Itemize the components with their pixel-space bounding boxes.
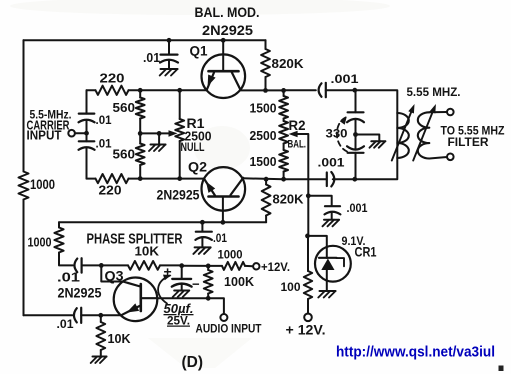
transistor Q2 xyxy=(202,167,246,211)
svg-text:BAL. MOD.: BAL. MOD. xyxy=(195,4,260,20)
wire secondary bottom lead xyxy=(429,157,447,159)
junction dot 330 mid xyxy=(353,132,358,137)
wire phase splitter rail xyxy=(59,221,266,223)
ground 10K xyxy=(93,356,107,358)
capacitor .01 top bypass xyxy=(168,40,170,54)
ground 330 chassis xyxy=(371,140,385,142)
svg-text:1500: 1500 xyxy=(250,154,277,169)
svg-text:.01: .01 xyxy=(143,50,160,65)
resistor 100K xyxy=(207,266,209,270)
svg-text:2N2925: 2N2925 xyxy=(157,188,200,203)
capacitor 330 upper xyxy=(355,90,357,112)
diode CR1 zener xyxy=(315,246,351,282)
wire 560 mid to ground stub xyxy=(140,132,159,134)
capacitor 330 lower xyxy=(355,135,357,150)
terminal output top xyxy=(447,109,454,116)
svg-text:10K: 10K xyxy=(108,331,132,346)
svg-text:100: 100 xyxy=(281,280,301,294)
wire row2 to coupling cap xyxy=(284,89,316,91)
resistor 220 top xyxy=(96,86,129,95)
resistor 1000 to +12V xyxy=(208,265,222,267)
resistor 560 lower xyxy=(139,133,141,143)
wire tank top right xyxy=(355,90,398,113)
svg-text:1000: 1000 xyxy=(30,177,55,192)
wire row4 220 to Q2 xyxy=(129,178,205,180)
resistor 220 bottom xyxy=(96,174,129,183)
svg-text:+ 12V.: + 12V. xyxy=(286,323,326,338)
svg-text:2500: 2500 xyxy=(250,128,277,143)
ground top bypass xyxy=(161,68,178,70)
svg-text:1000: 1000 xyxy=(28,235,52,250)
junction dot row4-chain xyxy=(281,177,286,182)
transistor Q1 xyxy=(202,54,246,98)
wire top supply rail xyxy=(24,39,266,41)
junction dot row4-820K xyxy=(264,177,269,182)
junction dot row4-R1 xyxy=(177,176,182,181)
wire left frame vertical xyxy=(23,40,25,171)
svg-text:+12V.: +12V. xyxy=(261,260,290,274)
resistor 10K horizontal xyxy=(101,264,128,266)
svg-text:R2: R2 xyxy=(289,117,306,133)
transistor Q3 xyxy=(114,278,158,322)
scan smudge middle xyxy=(194,126,250,170)
ground null network xyxy=(158,133,160,143)
junction dot rail-Q2e xyxy=(221,220,226,225)
resistor R1 2500 pot xyxy=(179,90,181,119)
arrow R2 wiper xyxy=(289,131,298,137)
wire bias to CR1 xyxy=(308,236,327,247)
wire input cap column upper stub xyxy=(86,90,88,113)
svg-text:220: 220 xyxy=(99,183,122,198)
wire bias to .001 bypass xyxy=(308,196,331,206)
resistor 1500 upper xyxy=(279,96,288,119)
svg-text:560: 560 xyxy=(113,147,136,162)
wire carrier input to caps xyxy=(75,132,87,134)
svg-text:820K: 820K xyxy=(272,56,305,71)
arc 330 ganged arrow xyxy=(337,118,347,152)
svg-text:FILTER: FILTER xyxy=(448,135,489,149)
terminal audio input xyxy=(220,314,227,321)
wire row4 to coupling cap xyxy=(284,178,327,180)
arrow T1 primary tuning xyxy=(392,108,413,161)
wire bias column lower xyxy=(307,236,309,271)
capacitor .01 carrier lower xyxy=(86,133,88,141)
junction dot tank bottom xyxy=(352,177,357,182)
svg-text:BAL.: BAL. xyxy=(288,139,307,151)
svg-text:.001: .001 xyxy=(347,201,368,215)
svg-text:820K: 820K xyxy=(273,192,305,207)
svg-text:AUDIO INPUT: AUDIO INPUT xyxy=(196,322,262,336)
inductor T1 secondary xyxy=(418,112,430,158)
wire R2 wiper to bias column xyxy=(298,134,309,196)
resistor 1000 left frame xyxy=(19,172,29,200)
wire audio node to terminal xyxy=(208,298,224,314)
capacitor 50uf electrolytic xyxy=(181,266,183,279)
junction dot carrier input xyxy=(84,131,89,136)
ground .001 bypass xyxy=(324,219,339,221)
svg-text:25V.: 25V. xyxy=(167,314,190,328)
resistor R2 2500 pot xyxy=(279,121,288,144)
svg-text:2N2925: 2N2925 xyxy=(202,22,253,38)
resistor 820K bottom xyxy=(265,179,267,184)
resistor 560 upper xyxy=(139,90,141,97)
junction dot row2-R1 xyxy=(177,88,182,93)
svg-text:Q1: Q1 xyxy=(190,43,208,59)
scan smudge bottom xyxy=(148,338,252,368)
svg-text:220: 220 xyxy=(100,71,125,86)
junction dot 100K node xyxy=(206,264,211,269)
svg-text:.001: .001 xyxy=(318,156,345,170)
wire row2 right of Q1 xyxy=(240,89,284,91)
resistor 10K vertical xyxy=(100,315,102,322)
svg-text:Q3: Q3 xyxy=(105,268,124,284)
wire row2 220 to Q1 xyxy=(129,89,207,91)
svg-text:.01: .01 xyxy=(57,317,74,331)
arrow T1 secondary tuning xyxy=(413,108,434,161)
capacitor .001 top coupling xyxy=(319,83,322,97)
junction dot rail-bypass01 xyxy=(200,220,205,225)
junction dot row2-820K xyxy=(263,88,268,93)
capacitor .001 bottom coupling xyxy=(326,173,328,187)
junction dot bias-CR1 xyxy=(305,234,310,239)
resistor 1500 lower xyxy=(283,144,285,151)
svg-text:(D): (D) xyxy=(182,354,204,371)
wire bottom row left xyxy=(24,314,73,316)
junction dot bias-bypass xyxy=(306,193,311,198)
junction dot audio node xyxy=(206,296,211,301)
terminal carrier input xyxy=(68,130,75,137)
junction dot Q3 base node xyxy=(99,263,104,268)
junction dot rail-Q1 xyxy=(221,38,226,43)
junction dot Q3 emitter node xyxy=(98,313,103,318)
svg-text:5.55 MHZ.: 5.55 MHZ. xyxy=(407,85,461,99)
wire secondary top lead xyxy=(429,111,447,113)
svg-text:.01: .01 xyxy=(96,113,112,127)
wire row4 right of Q2 xyxy=(243,177,283,180)
svg-text:.01: .01 xyxy=(96,137,112,151)
svg-text:NULL: NULL xyxy=(181,140,205,154)
scan smudge top xyxy=(10,0,390,15)
arrow R1 wiper xyxy=(169,130,178,137)
capacitor .01 Q2 bypass xyxy=(201,222,203,231)
junction dot row2-560 xyxy=(138,88,143,93)
arc 50uf pointer xyxy=(158,276,170,304)
resistor 1000 phase splitter xyxy=(58,222,60,227)
svg-text:100K: 100K xyxy=(224,274,255,289)
terminal +12V bottom xyxy=(304,314,312,322)
junction dot row4-560 xyxy=(138,176,143,181)
junction dot rail-cap01 xyxy=(167,38,172,43)
svg-text:−: − xyxy=(192,277,200,292)
wire row2 left corner to 220 xyxy=(87,89,96,91)
ground 50uf xyxy=(174,290,189,292)
svg-text:.01: .01 xyxy=(213,231,227,245)
ground .01 Q2 bypass xyxy=(195,246,211,248)
svg-text:2N2925: 2N2925 xyxy=(58,286,102,301)
wire wiper R1 xyxy=(159,132,168,134)
inductor T1 primary xyxy=(396,113,398,158)
svg-text:Q2: Q2 xyxy=(188,159,207,175)
svg-text:INPUT: INPUT xyxy=(27,128,62,143)
wire Q3 base lead xyxy=(101,265,123,281)
wire 330 mid to chassis xyxy=(356,135,380,141)
svg-text:.01: .01 xyxy=(57,270,80,285)
capacitor .001 bypass xyxy=(325,205,340,207)
svg-text:.001: .001 xyxy=(331,72,359,86)
terminal output bottom xyxy=(447,154,454,161)
wire emitter node to Q3 xyxy=(101,314,121,316)
svg-text:http://www.qsl.net/va3iul: http://www.qsl.net/va3iul xyxy=(336,345,495,361)
svg-text:1500: 1500 xyxy=(250,101,277,116)
junction dot 50uf node xyxy=(179,263,184,268)
svg-text:10K: 10K xyxy=(135,244,160,259)
resistor 820K top xyxy=(265,40,267,49)
wire row4 corner to 220 xyxy=(87,178,96,180)
capacitor .01 carrier upper xyxy=(79,112,95,114)
speck bottom right xyxy=(499,366,504,372)
wire tank bottom right xyxy=(355,158,398,179)
junction dot tank top xyxy=(352,88,357,93)
terminal +12V mid xyxy=(253,263,259,269)
wire Q3 collector to audio node xyxy=(157,297,208,299)
svg-text:1000: 1000 xyxy=(218,248,243,262)
capacitor .01 audio xyxy=(74,308,77,322)
junction dot null ground xyxy=(157,131,162,136)
wire bias column mid xyxy=(307,196,309,236)
wire 100 to +12V terminal xyxy=(307,299,309,314)
junction dot row2-chain xyxy=(281,88,286,93)
capacitor .01 PS input xyxy=(74,259,77,273)
svg-text:CR1: CR1 xyxy=(355,244,377,260)
wire 50uf node to 100K node xyxy=(182,265,209,267)
svg-text:560: 560 xyxy=(113,100,136,115)
junction dot 560 mid xyxy=(138,131,143,136)
ground CR1 xyxy=(320,290,336,292)
resistor 100 xyxy=(304,271,312,299)
